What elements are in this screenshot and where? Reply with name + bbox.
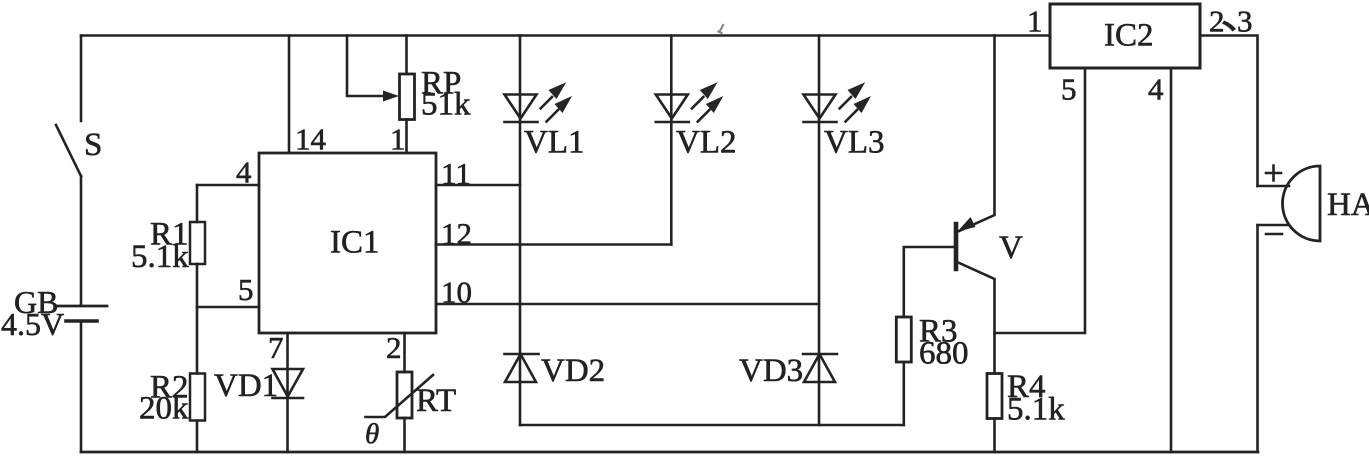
wire RP top bbox=[405, 36, 408, 75]
svg-text:VD2: VD2 bbox=[541, 353, 605, 389]
LED VL2 symbol bbox=[656, 95, 689, 123]
resistor R2 body bbox=[190, 374, 205, 421]
wire pin10 bbox=[436, 303, 819, 306]
svg-text:VD1: VD1 bbox=[214, 368, 278, 404]
svg-text:680: 680 bbox=[919, 336, 969, 372]
svg-text:2: 2 bbox=[386, 330, 402, 365]
wire R2 bottom bbox=[196, 421, 199, 453]
svg-text:7: 7 bbox=[268, 330, 284, 365]
IC2 pin label 2,3 bbox=[1209, 4, 1253, 39]
svg-text:12: 12 bbox=[441, 216, 472, 251]
svg-text:14: 14 bbox=[295, 122, 327, 157]
svg-text:V: V bbox=[999, 230, 1023, 266]
svg-text:10: 10 bbox=[441, 275, 472, 310]
diode VD3 bbox=[803, 354, 837, 382]
thermistor RT diagonal bbox=[366, 375, 434, 417]
svg-text:IC1: IC1 bbox=[330, 225, 380, 261]
svg-text:VD3: VD3 bbox=[739, 353, 803, 389]
svg-text:HA: HA bbox=[1327, 187, 1369, 223]
wire diode bottom bus bbox=[520, 424, 904, 427]
svg-text:5: 5 bbox=[1061, 72, 1077, 107]
resistor R3 body bbox=[896, 317, 911, 362]
speaker HA body bbox=[1283, 166, 1321, 241]
potentiometer RP wiper arrowhead bbox=[383, 91, 399, 102]
wire R4 bottom bbox=[993, 419, 996, 453]
wire left rail upper bbox=[80, 36, 83, 122]
LED VL1 symbol bbox=[505, 95, 538, 123]
potentiometer RP body bbox=[400, 74, 415, 120]
transistor V base bar bbox=[954, 224, 959, 269]
svg-text:11: 11 bbox=[441, 156, 471, 191]
wire IC2 pin4 column bbox=[1170, 68, 1173, 452]
svg-text:1: 1 bbox=[390, 122, 406, 157]
wire R2 top bbox=[196, 307, 199, 374]
wire collector to IC2 pin5 bbox=[995, 68, 1086, 333]
svg-text:51k: 51k bbox=[421, 87, 471, 123]
LED VL2 arrows bbox=[692, 82, 723, 121]
wire R1 top bbox=[196, 185, 199, 222]
svg-text:S: S bbox=[84, 127, 102, 163]
wire pin2 column bbox=[403, 333, 406, 372]
svg-text:VL1: VL1 bbox=[524, 125, 585, 161]
op-amp IC1 box bbox=[259, 153, 436, 333]
wire RT bottom bbox=[403, 418, 406, 452]
diode VD1 bbox=[273, 369, 304, 398]
wire bottom rail bbox=[81, 451, 1258, 454]
wire R3 bottom column bbox=[902, 362, 905, 425]
svg-text:5: 5 bbox=[238, 272, 254, 307]
svg-text:θ: θ bbox=[365, 418, 379, 450]
wire pin14 column bbox=[288, 36, 291, 154]
svg-text:4: 4 bbox=[1148, 72, 1164, 107]
svg-text:20k: 20k bbox=[139, 391, 189, 427]
diode VD2 bbox=[505, 354, 539, 382]
potentiometer RP wiper wire bbox=[347, 36, 392, 97]
LED VL3 arrows bbox=[840, 82, 871, 121]
wire R1 bottom bbox=[196, 264, 199, 307]
resistor R4 body bbox=[987, 374, 1002, 419]
svg-text:4.5V: 4.5V bbox=[1, 306, 64, 342]
svg-text:5.1k: 5.1k bbox=[131, 239, 189, 275]
wire pin7 column bbox=[286, 333, 289, 398]
wire left rail lower bbox=[80, 321, 83, 452]
wire left rail middle bbox=[80, 176, 83, 305]
LED VL3 symbol bbox=[804, 95, 837, 123]
svg-text:3: 3 bbox=[1237, 4, 1253, 39]
IC2 box bbox=[1050, 4, 1200, 68]
speaker HA minus bbox=[1266, 233, 1282, 236]
LED VL2 column wire bbox=[670, 36, 673, 245]
speaker HA top terminal bbox=[1258, 185, 1290, 188]
wire VD1 bottom bbox=[286, 398, 289, 452]
wire pin4 bbox=[197, 184, 259, 187]
transistor V emitter arrowhead bbox=[958, 217, 976, 232]
stray tick mark above top rail bbox=[719, 25, 724, 33]
wire R3 top to base bbox=[904, 247, 955, 317]
svg-text:VL2: VL2 bbox=[676, 125, 737, 161]
svg-text:1: 1 bbox=[1027, 4, 1043, 39]
transistor V emitter wire bbox=[959, 36, 995, 232]
speaker HA bottom terminal bbox=[1258, 224, 1290, 227]
wire pin5 bbox=[197, 306, 259, 309]
switch S bbox=[56, 125, 81, 176]
speaker HA plus bbox=[1266, 166, 1281, 181]
LED VL1 arrows bbox=[541, 82, 572, 121]
svg-text:2: 2 bbox=[1209, 4, 1225, 39]
svg-text:4: 4 bbox=[236, 155, 252, 190]
svg-text:IC2: IC2 bbox=[1104, 18, 1154, 54]
battery GB plate short bbox=[66, 319, 97, 323]
wire top rail bbox=[81, 34, 1050, 37]
battery GB plate long bbox=[56, 305, 107, 308]
resistor R1 body bbox=[190, 222, 205, 264]
wire pin11 bbox=[436, 184, 520, 187]
svg-text:RT: RT bbox=[416, 383, 456, 419]
wire IC2 right to HA bbox=[1200, 36, 1258, 187]
thermistor RT body bbox=[397, 372, 412, 418]
LED VL1 column wire bbox=[519, 36, 522, 426]
LED VL3 column wire bbox=[818, 36, 821, 426]
svg-text:VL3: VL3 bbox=[824, 125, 885, 161]
wire RP bottom to IC1 pin1 bbox=[405, 120, 408, 154]
svg-text:5.1k: 5.1k bbox=[1007, 392, 1065, 428]
wire pin12 bbox=[436, 243, 671, 246]
wire HA bottom column bbox=[1256, 225, 1259, 452]
transistor V collector wire bbox=[956, 262, 995, 374]
